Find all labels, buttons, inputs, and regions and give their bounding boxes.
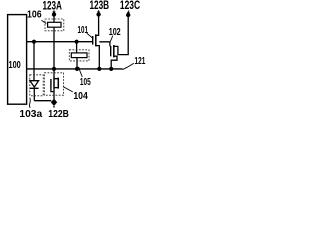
wire: Q104 source lead down to pad 122B	[53, 89, 55, 99]
wire: top bus from block 100 to gate of Q101	[27, 41, 92, 43]
transistor Q104 drain lead	[53, 69, 55, 77]
dashed box around 106	[45, 19, 64, 31]
svg-text:105: 105	[80, 76, 91, 88]
transistor Q102 gate bar	[110, 46, 112, 56]
svg-text:103a: 103a	[19, 108, 42, 120]
wire: Q104 gate tied down to source	[51, 87, 54, 92]
leader line for label 121	[122, 63, 133, 69]
pad 122B diamond node	[51, 99, 57, 106]
pad 123A dot and leader arrow	[52, 12, 56, 16]
wire: Q101 drain lead up to pad 123B	[96, 14, 99, 35]
wire: Q101 source lead down to output line	[96, 46, 100, 69]
wire: resistor 105 bottom lead	[76, 58, 78, 69]
svg-text:122B: 122B	[48, 108, 69, 120]
node junction 105/output line	[75, 67, 79, 71]
internal circuit block 100	[8, 15, 27, 105]
leader line for label 102	[110, 36, 112, 42]
leader line for label 104	[63, 87, 73, 92]
resistor 106 upper wire from pad 123A	[53, 14, 55, 22]
resistor 105 body	[71, 53, 87, 58]
dashed box around 105	[69, 50, 89, 61]
pad 123B dot and leader arrow	[96, 12, 100, 16]
Q104 terminal stubs	[54, 79, 58, 88]
transistor Q104 channel bar	[53, 77, 55, 89]
transistor Q101 channel bar	[95, 34, 97, 46]
resistor 106 body	[48, 22, 61, 27]
svg-text:121: 121	[135, 55, 146, 67]
svg-text:123A: 123A	[42, 0, 62, 12]
node junction on bus at diode branch	[32, 40, 36, 44]
svg-text:106: 106	[27, 9, 42, 21]
leader line for label 105	[79, 67, 83, 77]
svg-text:123B: 123B	[89, 0, 109, 12]
dashed box around diode 103a	[30, 75, 43, 96]
svg-text:101: 101	[77, 24, 88, 36]
leader line for label 103a	[28, 98, 31, 108]
transistor Q102 channel bar	[113, 45, 115, 57]
wire: bottom ground rail to pad 122B	[34, 100, 51, 102]
node junction on bus at resistor 105	[75, 40, 79, 44]
leader line for label 106	[42, 20, 47, 23]
wire: segment from Q101 lead to gate of Q102	[99, 42, 110, 47]
pad 123C dot and leader arrow	[126, 13, 130, 17]
transistor Q101 gate bar	[92, 36, 94, 45]
transistor Q104 gate bar	[50, 79, 52, 87]
wire: cathode of diode down to bottom rail	[33, 88, 35, 100]
dashed box around Q104	[44, 73, 63, 95]
svg-text:102: 102	[109, 26, 121, 38]
svg-text:104: 104	[73, 90, 88, 102]
svg-text:123C: 123C	[120, 0, 140, 12]
wire: anode lead of diode 103a	[33, 42, 35, 81]
wire: Q102 drain lead over to pad 123C	[114, 15, 128, 55]
node junction Q101/output line	[97, 67, 101, 71]
node junction Q102/output line	[109, 67, 113, 71]
svg-text:100: 100	[9, 59, 21, 71]
diode 103a	[30, 81, 39, 87]
wire: lower output line from block 100 to pad 121 line end	[27, 68, 123, 70]
wire: resistor 105 top lead	[76, 42, 78, 53]
node junction 106/output line	[52, 67, 56, 71]
wire: Q102 source lead down to output line	[111, 56, 117, 69]
leader line for label 101	[87, 33, 92, 37]
wire: resistor 106 lower lead crossing bus to output line	[53, 27, 55, 69]
